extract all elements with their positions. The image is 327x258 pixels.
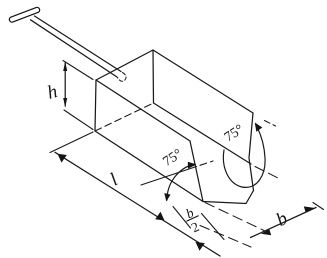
body: bottom back hidden edge (dashed) xyxy=(95,103,154,131)
handle rod hidden end cap (dashed) xyxy=(118,73,127,82)
arrowhead: left 75 arc start (pointing down) xyxy=(164,193,170,202)
dim l: left extension line xyxy=(50,132,93,153)
dim b/2: right extension line xyxy=(202,214,225,240)
body: right wall bottom edge extension (dashed) xyxy=(255,167,281,180)
body: front blade edge xyxy=(203,191,254,204)
svg-text:75°: 75° xyxy=(222,122,247,145)
handle crossbar xyxy=(12,10,37,20)
svg-text:75°: 75° xyxy=(161,147,186,170)
arrowhead: right 75 arc end (pointing up-left) xyxy=(255,123,262,132)
body: left wall bottom edge xyxy=(95,131,203,202)
dim h: vertical dimension line xyxy=(64,63,66,106)
arrowhead: h bottom (pointing down) xyxy=(63,98,67,108)
arrowhead: b right (pointing up-right) xyxy=(304,206,314,212)
svg-text:l: l xyxy=(106,169,121,190)
svg-text:2: 2 xyxy=(189,219,201,235)
body: left wall front cut edge (75 deg) xyxy=(190,141,203,202)
body: right wall front cut edge (75 deg) xyxy=(249,113,254,191)
arrowhead: b left (pointing down-left) xyxy=(261,229,271,235)
centerline lower (dash-dot) xyxy=(200,226,251,248)
dim b/2: left extension line xyxy=(173,207,191,229)
body: back-left vertical edge xyxy=(95,80,96,131)
label b/2 fraction xyxy=(181,203,206,236)
left 75deg: angle arc xyxy=(167,164,194,200)
arrowhead: l left (pointing up-left) xyxy=(58,154,67,163)
left 75deg: reference line dashed continuation xyxy=(200,161,213,165)
arrowhead: left 75 arc end (pointing right) xyxy=(188,162,197,169)
body: back-right vertical edge xyxy=(152,50,155,103)
left 75deg: reference line xyxy=(141,167,197,186)
handle crossbar inner white xyxy=(12,10,37,20)
arrowhead: b/2 (pointing up-left, on l line extension) xyxy=(196,242,205,251)
dim l: dimension line (long, overshooting) xyxy=(55,152,220,256)
body: left wall top edge xyxy=(96,80,190,141)
handle rod upper line xyxy=(35,16,122,72)
arrowhead: h top (pointing up) xyxy=(63,62,67,72)
right 75deg: angle arc xyxy=(223,124,265,187)
body: right wall top edge xyxy=(153,50,253,113)
handle rod lower line xyxy=(31,20,118,77)
body: right wall bottom edge xyxy=(154,103,252,164)
svg-text:h: h xyxy=(45,81,60,104)
dim b: dimension line xyxy=(251,208,317,238)
svg-text:b: b xyxy=(273,208,291,231)
arrowhead: l right (pointing down-right) xyxy=(155,212,164,221)
right 75deg: dashed tick beyond arrow xyxy=(265,121,276,127)
body: top back edge xyxy=(96,50,153,80)
dim h: bottom extension line xyxy=(64,110,93,130)
dim b: right extension line xyxy=(313,203,324,210)
dim h: top extension line xyxy=(63,61,93,80)
centerline upper (dash-dot) from left tip xyxy=(205,203,264,231)
